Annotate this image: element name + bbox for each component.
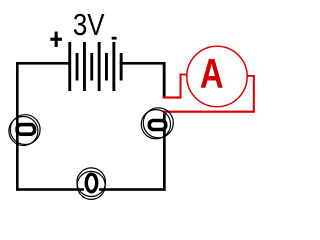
- battery B1 plate long 2: [83, 42, 86, 91]
- meter M1 circle a (left wire): [10, 115, 40, 145]
- wire: left vertical side: [16, 62, 19, 191]
- label 3V battery value: [73, 8, 105, 43]
- label + polarity : horizontal arm: [50, 38, 62, 41]
- battery B1 plate long 1: [68, 42, 71, 91]
- red wire: ammeter right terminal vertical: [253, 75, 255, 113]
- ammeter A letter: [200, 50, 224, 97]
- wire: top-right horizontal from battery - terminal to corner: [120, 62, 166, 65]
- meter M2 circle b (sketch offset): [141, 110, 170, 139]
- wire: bottom horizontal left of meter M3: [16, 188, 84, 191]
- red wire: stub down into meter M2: [163, 111, 165, 115]
- meter M3 circle a (bottom wire): [77, 168, 106, 197]
- battery B1 plate short 4: [120, 53, 123, 81]
- battery B1 plate long 3: [98, 42, 101, 91]
- svg-text:A: A: [200, 50, 224, 97]
- wire: right vertical upper segment to ammeter junction: [163, 62, 166, 99]
- label - polarity: [112, 37, 117, 40]
- label + polarity : vertical arm: [55, 32, 58, 47]
- meter M1 reading 0 (rotated): [17, 125, 34, 135]
- wire: bottom horizontal right of meter M3: [99, 188, 165, 191]
- red wire: ammeter left terminal top tab: [180, 74, 188, 76]
- meter M1 circle b (sketch offset): [9, 117, 38, 146]
- battery B1 plate short 2: [90, 53, 93, 81]
- meter M3 reading 0 (upright): [86, 174, 96, 192]
- ammeter A body circle: [187, 46, 247, 106]
- meter M3 circle b (sketch offset): [77, 171, 105, 199]
- battery B1 plate short 3: [105, 53, 108, 81]
- red wire: lower horizontal from right terminal to meter M2: [163, 111, 255, 113]
- red wire: ammeter left terminal vertical: [180, 74, 182, 99]
- meter M2 reading 0 (rotated): [149, 121, 165, 130]
- red wire: junction horizontal to ammeter left terminal: [163, 96, 182, 98]
- wire: top-left horizontal from left corner to battery + terminal: [16, 62, 71, 65]
- svg-text:3V: 3V: [73, 8, 105, 43]
- battery B1 plate long 4: [112, 42, 115, 91]
- red wire: ammeter right terminal top tab: [247, 75, 255, 77]
- battery B1 plate short 1: [76, 53, 79, 81]
- wire: right vertical lower segment through meter M2 to bottom: [163, 111, 166, 191]
- meter M2 circle a (right wire): [143, 108, 173, 138]
